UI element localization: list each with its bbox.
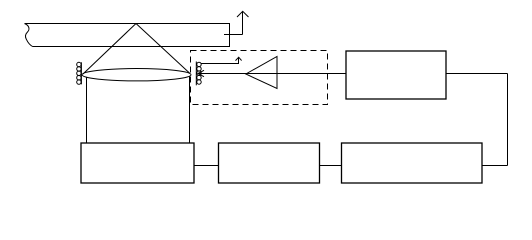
wire: top-right block to right riser: [446, 73, 508, 75]
wire: bottom-middle to bottom-right: [320, 165, 342, 167]
wire: coil tap line: [201, 58, 239, 64]
tube right end wall: [229, 24, 231, 47]
block: top-right unit: [346, 51, 446, 99]
arrowhead: output beam up arrow: [237, 11, 249, 17]
coil L2 (right drive coil): [196, 62, 201, 86]
wire: vertical arrow shaft: [242, 12, 244, 35]
amplifier U1 (triangle): [246, 57, 277, 89]
wire: output stub from tube: [224, 34, 243, 36]
lens (ellipse): [82, 69, 191, 81]
support column right (below lens): [189, 76, 191, 143]
light ray right (apex to lens right tip): [136, 24, 190, 74]
light ray left (apex to lens left tip): [83, 24, 136, 75]
coil L1 (left pickup coil): [77, 62, 82, 84]
wire: right riser vertical: [507, 74, 509, 166]
block: bottom-right unit: [342, 143, 483, 183]
arrowhead: drive arrow into coil L2: [198, 70, 204, 76]
arrowhead: small up arrow on coil tap: [236, 57, 242, 60]
tube top wall: [25, 23, 231, 25]
support column left (below lens): [86, 77, 88, 143]
tube bottom wall: [33, 46, 231, 48]
block: bottom-middle unit: [219, 143, 320, 183]
tube left break squiggle: [25, 24, 33, 47]
wire: bottom-right to right riser: [482, 165, 508, 167]
wire: bottom-left to bottom-middle: [194, 165, 219, 167]
dashed enclosure (feedback unit): [191, 51, 328, 105]
wire: feedback line from amplifier to block, through coil: [198, 73, 346, 75]
block: bottom-left unit: [81, 143, 194, 183]
